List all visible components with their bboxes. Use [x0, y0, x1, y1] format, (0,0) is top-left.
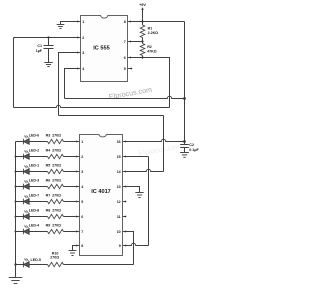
ground at 4017 pin8 — [69, 250, 77, 252]
node rail row 7 — [15, 231, 17, 233]
pin 7 stub (4017) — [77, 231, 80, 233]
svg-text:5: 5 — [124, 67, 126, 71]
pin 15 stub (4017) — [123, 156, 126, 158]
svg-text:R4: R4 — [46, 148, 51, 152]
svg-text:3: 3 — [82, 51, 84, 55]
node C1 tap junction — [47, 36, 49, 38]
wire pin4 left, down, right to +9V rail (hops over tie vertical) — [65, 69, 78, 99]
svg-text:3: 3 — [81, 170, 83, 174]
wire pin14 clock entry (hops reset vertical) — [125, 169, 163, 171]
svg-text:R1: R1 — [148, 26, 153, 30]
svg-text:LED-6: LED-6 — [29, 133, 39, 137]
LED LED-1 — [22, 169, 24, 175]
wire LED-8 to R8 — [29, 216, 47, 218]
wire row LED-6 — [16, 141, 24, 143]
wire row LED-7 — [16, 201, 24, 203]
svg-text:R5: R5 — [46, 163, 51, 167]
svg-text:11: 11 — [117, 215, 121, 219]
wire R5 to 4017 pin 3 — [64, 171, 77, 173]
node rail row 5 — [15, 201, 17, 203]
svg-text:4: 4 — [81, 185, 83, 189]
LED LED-3 — [22, 184, 24, 190]
svg-text:5: 5 — [81, 200, 83, 204]
svg-text:7: 7 — [124, 40, 126, 44]
resistor R5 270Ω — [48, 169, 64, 173]
svg-text:14: 14 — [117, 170, 121, 174]
wire pin9 to reset vertical (hops pin10 vertical) — [125, 243, 148, 245]
node rail row 3 — [15, 171, 17, 173]
pin 6 stub (555) — [128, 57, 131, 59]
pin 14 stub (4017) — [123, 171, 126, 173]
svg-text:270Ω: 270Ω — [52, 223, 61, 227]
wire R4 to 4017 pin 2 — [64, 156, 77, 158]
node pin4/rail junction — [183, 97, 186, 100]
ground at LED rail bottom — [9, 277, 23, 279]
wire pin15 to reset vertical — [125, 156, 148, 158]
svg-text:270Ω: 270Ω — [50, 256, 59, 260]
svg-text:8: 8 — [81, 244, 83, 248]
svg-text:R8: R8 — [46, 208, 51, 212]
svg-text:12: 12 — [117, 200, 121, 204]
svg-text:270Ω: 270Ω — [52, 193, 61, 197]
pin 8 stub (555) — [128, 21, 131, 23]
resistor R2 — [142, 42, 144, 44]
svg-text:LED-5: LED-5 — [31, 258, 41, 262]
svg-text:LED-2: LED-2 — [29, 148, 39, 152]
pin 4 stub (555) — [78, 68, 81, 70]
node rail row 6 — [15, 216, 17, 218]
pin 1 stub (555) — [78, 21, 81, 23]
wire pin6 junction right and down (to pin2 tie) — [143, 58, 170, 108]
IC U1 555 timer — [81, 16, 128, 82]
svg-text:LED-1: LED-1 — [29, 163, 39, 167]
wire pin15-pin9 vertical — [148, 157, 150, 246]
svg-text:2: 2 — [82, 36, 84, 40]
node R1 top junction — [141, 20, 143, 22]
wire row LED-1 — [16, 171, 24, 173]
svg-text:8: 8 — [124, 20, 126, 24]
svg-text:270Ω: 270Ω — [52, 148, 61, 152]
wire clock line to 4017 pin14 (down at right) — [59, 115, 164, 117]
wire row LED-4 — [16, 231, 24, 233]
svg-text:10: 10 — [117, 230, 121, 234]
svg-text:2.2KΩ: 2.2KΩ — [148, 31, 159, 35]
pin 13 stub (4017) — [123, 186, 126, 188]
svg-text:1µF: 1µF — [36, 49, 43, 53]
svg-text:+9V: +9V — [139, 3, 146, 7]
ground below C2 — [180, 152, 189, 154]
wire LED-3 to R6 — [29, 186, 47, 188]
wire pin8 (4017) to ground — [73, 246, 77, 251]
resistor R1 — [142, 22, 144, 26]
svg-text:R2: R2 — [147, 45, 152, 49]
wire pin6 to R2 bottom — [130, 57, 142, 59]
svg-text:R9: R9 — [46, 223, 51, 227]
svg-text:LED-3: LED-3 — [29, 178, 39, 182]
wire LED-2 to R4 — [29, 156, 47, 158]
ground below C1 — [44, 62, 52, 64]
node rail row 4 — [15, 186, 17, 188]
wire LED-4 to R9 — [29, 231, 47, 233]
svg-text:IC 4017: IC 4017 — [91, 189, 111, 195]
wire pin2 long line — [14, 37, 78, 39]
wire row LED-8 — [16, 216, 24, 218]
svg-text:2: 2 — [81, 155, 83, 159]
pin 4 stub (4017) — [77, 186, 80, 188]
LED LED-8 — [22, 214, 24, 220]
wire pin7 to R1/R2 junction — [130, 41, 142, 43]
svg-text:47KΩ: 47KΩ — [147, 50, 157, 54]
pin 8 stub (4017) — [77, 245, 80, 247]
resistor R7 270Ω — [48, 199, 64, 203]
pin 16 stub (4017) — [123, 141, 126, 143]
resistor R4 270Ω — [48, 154, 64, 158]
svg-text:270Ω: 270Ω — [52, 178, 61, 182]
pin 2 stub (4017) — [77, 156, 80, 158]
wire R10 to pin10 vertical — [64, 264, 134, 266]
svg-text:270Ω: 270Ω — [52, 163, 61, 167]
svg-text:6: 6 — [81, 215, 83, 219]
svg-text:R7: R7 — [46, 193, 51, 197]
wire LED-1 to R5 — [29, 171, 47, 173]
svg-text:LED-4: LED-4 — [29, 223, 39, 227]
resistor R3 270Ω — [48, 139, 64, 143]
pin 12 stub (4017) — [123, 201, 126, 203]
pin 5 stub (555) NC — [128, 68, 132, 70]
wire R3 to 4017 pin 1 — [64, 141, 77, 143]
svg-text:7: 7 — [81, 230, 83, 234]
svg-text:LED-8: LED-8 — [29, 208, 39, 212]
wire LED-7 to R7 — [29, 201, 47, 203]
svg-text:IC 555: IC 555 — [93, 45, 109, 51]
svg-text:4: 4 — [82, 67, 84, 71]
wire row LED-3 — [16, 186, 24, 188]
node pin16/rail junction — [183, 140, 186, 143]
wire LED-6 to R3 — [29, 141, 47, 143]
wire LED-5 to R10 — [29, 264, 47, 266]
wire pin16 to +9V rail (hops clock vertical) — [125, 139, 184, 141]
wire pin1 to ground — [61, 22, 78, 25]
svg-text:270Ω: 270Ω — [52, 208, 61, 212]
capacitor C1 — [48, 38, 50, 46]
svg-text:C1: C1 — [37, 44, 42, 48]
resistor R10 270Ω — [48, 262, 64, 266]
svg-text:1: 1 — [81, 140, 83, 144]
svg-text:C2: C2 — [189, 143, 194, 147]
node R1/R2/pin7 junction — [141, 40, 143, 42]
pin 1 stub (4017) — [77, 141, 80, 143]
IC U2 4017 decade counter — [80, 135, 123, 256]
wire pin8 to +9V rail — [130, 21, 184, 23]
wire pin13 to ground — [125, 187, 139, 193]
wire LED ground rail — [15, 142, 17, 278]
LED LED-2 — [22, 154, 24, 160]
wire R7 to 4017 pin 5 — [64, 201, 77, 203]
wire +9V rail vertical — [184, 22, 186, 144]
node R2 bottom / pin6 junction — [141, 56, 143, 58]
wire row LED-2 — [16, 156, 24, 158]
resistor R8 270Ω — [48, 214, 64, 218]
svg-text:6: 6 — [124, 56, 126, 60]
LED LED-6 — [22, 139, 24, 145]
svg-text:16: 16 — [117, 140, 121, 144]
pin 7 stub (555) — [128, 41, 131, 43]
capacitor C2 — [184, 142, 186, 145]
svg-text:LED-7: LED-7 — [29, 193, 39, 197]
pin 9 stub (4017) — [123, 245, 126, 247]
ground at 555 pin1 — [57, 24, 65, 26]
pin 5 stub (4017) — [77, 201, 80, 203]
svg-text:R6: R6 — [46, 178, 51, 182]
wire pin10 down to LED-5 row — [125, 232, 133, 265]
wire left rail up to pin2 — [13, 38, 15, 108]
LED LED-7 — [22, 199, 24, 205]
pin 11 stub (4017) — [123, 216, 126, 218]
wire pin3 left and down — [59, 53, 78, 116]
svg-text:270Ω: 270Ω — [52, 133, 61, 137]
wire R9 to 4017 pin 7 — [64, 231, 77, 233]
LED LED-5 — [22, 262, 24, 268]
pin 2 stub (555) — [78, 37, 81, 39]
resistor R9 270Ω — [48, 229, 64, 233]
svg-text:15: 15 — [117, 155, 121, 159]
svg-text:0.1µF: 0.1µF — [189, 148, 199, 152]
svg-text:1: 1 — [82, 20, 84, 24]
wire R8 to 4017 pin 6 — [64, 216, 77, 218]
pin 3 stub (555) — [78, 52, 81, 54]
wire 2-6 tie line (hops over pin3 vertical) — [14, 105, 170, 107]
node rail row 2 — [15, 156, 17, 158]
ground at 4017 pin13 — [135, 192, 143, 194]
svg-text:R3: R3 — [46, 133, 51, 137]
svg-text:9: 9 — [119, 244, 121, 248]
node rail row LED-5 — [14, 263, 16, 265]
pin 3 stub (4017) — [77, 171, 80, 173]
resistor R6 270Ω — [48, 184, 64, 188]
svg-text:13: 13 — [117, 185, 121, 189]
pin 6 stub (4017) — [77, 216, 80, 218]
wire rail to LED-5 — [16, 264, 24, 266]
wire R6 to 4017 pin 4 — [64, 186, 77, 188]
pin 10 stub (4017) — [123, 231, 126, 233]
LED LED-4 — [22, 229, 24, 235]
